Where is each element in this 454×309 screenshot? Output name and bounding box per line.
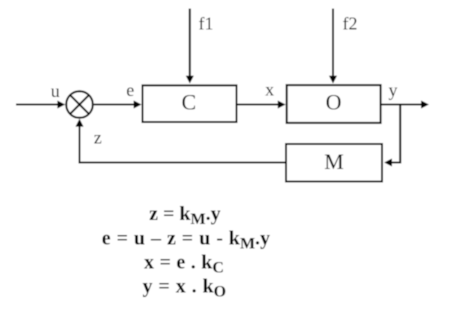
block O	[287, 85, 381, 123]
wire f2	[332, 9, 334, 78]
arrowhead into C	[134, 101, 142, 109]
arrowhead into summing junction bottom	[76, 119, 84, 127]
svg-text:f1: f1	[199, 13, 214, 33]
wire y output	[382, 104, 423, 106]
svg-text:y = x . kO: y = x . kO	[143, 275, 227, 300]
wire input u	[16, 104, 59, 106]
svg-text:O: O	[326, 90, 342, 115]
arrowhead into summing junction	[57, 101, 65, 109]
svg-text:e: e	[126, 80, 134, 100]
svg-text:u: u	[51, 81, 60, 101]
arrowhead output	[421, 101, 429, 109]
arrowhead f1 into C	[186, 76, 194, 84]
block M	[286, 144, 382, 182]
block C	[143, 85, 237, 122]
wire f1	[189, 9, 191, 78]
wire e: summing junction to block C	[94, 104, 135, 106]
arrowhead into O	[278, 101, 286, 109]
wire branch down from y to M	[391, 105, 400, 163]
svg-text:x: x	[265, 79, 274, 99]
svg-text:C: C	[181, 89, 196, 114]
arrowhead f2 into O	[329, 76, 337, 84]
svg-text:M: M	[324, 149, 344, 174]
summing junction S1	[66, 91, 93, 118]
svg-text:x = e . kC: x = e . kC	[144, 252, 224, 277]
wire feedback z: M to summing junction	[80, 125, 286, 163]
svg-text:z: z	[94, 128, 102, 148]
wire x: block C to block O	[238, 104, 280, 106]
svg-text:z = kM.y: z = kM.y	[149, 203, 221, 228]
arrowhead into M right side	[384, 159, 392, 167]
svg-text:y: y	[389, 80, 398, 100]
svg-text:f2: f2	[343, 13, 358, 33]
